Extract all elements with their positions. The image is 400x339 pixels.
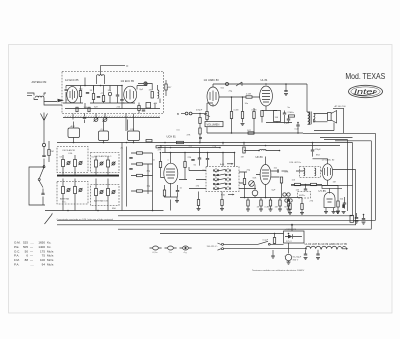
svg-text:VOLUMEN: VOLUMEN	[207, 122, 220, 126]
switch wafer bars	[216, 168, 228, 190]
trimmer CT2 below box	[94, 118, 98, 122]
svg-text:47K: 47K	[158, 149, 162, 151]
tube V3 UCH81	[164, 163, 178, 184]
resistor R37	[301, 204, 303, 210]
ground g18 cluster	[342, 212, 346, 214]
output transformer T2	[308, 112, 310, 124]
ground g7	[278, 209, 282, 211]
resistor R4	[102, 96, 104, 102]
resistor R31	[261, 111, 263, 117]
svg-text:UF 89: UF 89	[256, 155, 264, 159]
svg-text:Tensiones medidas con voltímet: Tensiones medidas con voltímetro electró…	[252, 269, 305, 272]
capacitor C8	[129, 158, 132, 159]
svg-text:0,3M: 0,3M	[265, 206, 270, 208]
svg-text:Mc/s: Mc/s	[47, 258, 54, 262]
svg-text:F.M.: F.M.	[14, 258, 20, 262]
svg-text:1M: 1M	[275, 206, 278, 208]
svg-text:Mc/s: Mc/s	[47, 254, 54, 258]
tube V8 UY85	[324, 192, 335, 207]
resistor R12	[159, 162, 161, 168]
wires transformer to speaker	[307, 112, 328, 124]
ground g13b	[332, 212, 336, 214]
capacitor C4	[97, 97, 100, 98]
svg-text:50: 50	[25, 249, 29, 253]
node c	[121, 85, 123, 87]
svg-text:1M: 1M	[241, 156, 244, 158]
wire anode V5 to UL84 grid	[219, 96, 260, 98]
trimmer CT7	[112, 162, 115, 165]
FM box internal wires	[63, 78, 160, 109]
wires UCH81 bottom	[164, 183, 177, 211]
coil L5	[74, 160, 77, 167]
svg-text:0,1M: 0,1M	[246, 94, 251, 96]
ground g9	[284, 94, 288, 96]
arrow conmutador	[45, 215, 52, 224]
resistor R10	[137, 190, 143, 192]
wires gang right	[131, 153, 153, 211]
wire det plate right	[333, 170, 356, 225]
resistor R36	[289, 204, 291, 210]
bus heater line	[160, 145, 340, 147]
svg-text:P.A.: P.A.	[14, 263, 19, 267]
capacitor C12	[176, 191, 179, 192]
trimmer CT11	[112, 191, 115, 194]
svg-text:470pF: 470pF	[196, 110, 203, 112]
svg-text:2M: 2M	[51, 151, 54, 153]
resistor R42	[76, 107, 78, 112]
resistor R16	[197, 200, 199, 206]
resistor R44 heater wire	[146, 140, 152, 142]
ground g11	[288, 213, 292, 215]
transformer T1 FM det	[146, 103, 151, 109]
svg-text:UL 84: UL 84	[261, 78, 268, 82]
value labels	[60, 87, 344, 241]
heater chain	[306, 246, 321, 249]
electrolytic C15	[252, 190, 258, 196]
trimmer CT8	[67, 189, 70, 192]
svg-text:+ B250 C75: + B250 C75	[285, 229, 297, 231]
resistor R14	[163, 190, 165, 196]
coil L2 with F tap	[97, 76, 105, 84]
coil L10	[95, 189, 98, 196]
capacitor C13	[206, 159, 209, 160]
svg-text:O.M.: O.M.	[68, 153, 73, 155]
ground g15	[287, 262, 291, 264]
capacitor C3	[86, 93, 89, 94]
resistor R19	[280, 177, 282, 183]
svg-text:110-125 V ~: 110-125 V ~	[207, 246, 219, 248]
svg-text:O.C.: O.C.	[14, 249, 20, 253]
terminal box right	[350, 215, 354, 222]
ground g14	[336, 211, 340, 213]
svg-text:0,1M: 0,1M	[234, 109, 239, 111]
svg-text:0,1µF: 0,1µF	[263, 239, 269, 241]
svg-text:Mc/s: Mc/s	[47, 249, 54, 253]
coil T6 AM IF	[285, 199, 288, 202]
coil L11	[107, 189, 110, 196]
svg-text:.....: .....	[30, 263, 34, 267]
svg-text:—: —	[30, 249, 33, 253]
resistor R29	[199, 118, 201, 124]
resistor R26	[230, 112, 232, 119]
resistor R34	[295, 183, 301, 185]
trimmer CT4	[67, 162, 70, 165]
band switch arm S1	[39, 167, 44, 188]
trimmer CT9	[79, 189, 82, 192]
FM tuner dashed enclosure	[62, 72, 164, 114]
wires IF bottom bus	[240, 185, 302, 198]
dashed box ANTENA O.C.	[57, 182, 88, 205]
resistor R39 NTC	[273, 238, 275, 244]
wire mains top	[224, 243, 259, 245]
capacitor C14	[278, 169, 279, 172]
dashed box ANTENA O.M.	[91, 185, 120, 206]
svg-text:P.E.: P.E.	[14, 245, 19, 249]
capacitor C31	[116, 95, 119, 96]
resistor R43	[88, 107, 90, 112]
coupling capacitor C5	[144, 82, 147, 85]
wire left frame	[29, 167, 45, 205]
wires UCH81 top	[158, 147, 234, 164]
bus bottom 4	[118, 141, 371, 229]
dashed IF box T4 467Kc	[298, 192, 311, 199]
svg-text:A.M.: A.M.	[220, 163, 225, 166]
svg-text:B: B	[177, 112, 179, 116]
resistor R5	[151, 92, 153, 99]
capacitor C16 screen	[226, 83, 229, 86]
node b	[100, 85, 102, 87]
resistor R1 left	[48, 141, 50, 162]
capacitor C6	[142, 110, 145, 111]
resistor R41	[289, 115, 295, 117]
trimmer CT3 below box	[103, 118, 107, 122]
mains input ticks	[218, 243, 222, 250]
dashed IF box T3	[300, 167, 321, 178]
svg-text:47K: 47K	[187, 134, 191, 136]
ground g13	[324, 212, 328, 214]
svg-text:50+50µF: 50+50µF	[293, 256, 302, 258]
bus detector out	[291, 184, 353, 186]
coil can F.M	[128, 131, 140, 141]
wires UF89 sides	[256, 171, 280, 177]
node B+ feed	[291, 224, 293, 226]
capacitor C11	[191, 160, 194, 161]
wires matrix top	[223, 143, 235, 167]
wire FM box verticals	[66, 86, 110, 104]
wires detector	[313, 159, 339, 196]
wire B+ top rail	[213, 84, 307, 112]
svg-text:OSCILADOR O.C.: OSCILADOR O.C.	[94, 155, 112, 158]
coil L4	[62, 160, 65, 167]
resistor R24	[287, 200, 289, 206]
resistor R18	[243, 147, 245, 153]
coil L6	[95, 160, 98, 167]
junction dots buses	[73, 122, 314, 250]
resistor R21	[260, 200, 262, 206]
resistor R27	[241, 112, 243, 119]
resistor R30	[199, 128, 201, 134]
svg-text:1400: 1400	[38, 245, 45, 249]
junction box small	[156, 146, 161, 148]
svg-text:Kc.: Kc.	[47, 245, 52, 249]
svg-text:5µF: 5µF	[272, 189, 276, 191]
bus bottom 2	[57, 133, 376, 220]
wires UF89 top	[244, 143, 280, 165]
ground g12	[300, 213, 304, 215]
ground g5	[259, 209, 263, 211]
coil L8	[62, 187, 65, 194]
wire grid stoppers	[137, 83, 160, 109]
rail y133	[207, 127, 375, 133]
svg-text:UCH 81: UCH 81	[167, 134, 177, 138]
ground hatch bus under FM box	[63, 117, 160, 119]
feed top right pair	[320, 138, 353, 140]
svg-text:1/2 ECC 85: 1/2 ECC 85	[65, 78, 79, 82]
ground g2	[197, 209, 201, 211]
antenna AM	[41, 113, 48, 144]
coil L7	[107, 160, 110, 167]
svg-text:O.M.: O.M.	[14, 241, 21, 245]
svg-text:505: 505	[23, 245, 28, 249]
diode D1	[288, 235, 293, 239]
rectifier box B250	[284, 231, 305, 243]
tube V1 1/2 ECC85	[67, 87, 78, 103]
wire FM antenna feed	[27, 93, 57, 102]
svg-text:47K: 47K	[285, 171, 289, 173]
resistor R7	[137, 152, 143, 154]
ground g1	[175, 201, 179, 203]
resistor R20	[247, 200, 249, 206]
svg-text:ANTENA FM: ANTENA FM	[32, 80, 47, 84]
svg-text:A.M: A.M	[71, 125, 75, 128]
pilot lamp LP1	[150, 247, 162, 249]
antenna feed arrow	[58, 99, 65, 103]
resistor R23	[279, 200, 281, 206]
svg-text:275 V: 275 V	[286, 241, 292, 243]
dashed box OSCILADOR O.C.	[91, 153, 120, 173]
switch tone S3	[236, 82, 242, 86]
svg-text:—: —	[30, 245, 33, 249]
coil L14	[315, 168, 316, 176]
box R32 cathode	[274, 111, 281, 122]
resistor R3	[92, 94, 94, 100]
coil L12	[260, 149, 267, 150]
capacitor C34 blob	[342, 205, 344, 208]
coil T5 AM IF	[283, 193, 286, 196]
ground g3	[220, 209, 224, 211]
tube V2 1/2 ECC85	[124, 86, 137, 103]
wire mains bottom	[224, 248, 307, 249]
resistor R15	[243, 179, 245, 185]
wires matrix left	[189, 167, 206, 189]
capacitor C7 below box	[83, 118, 86, 119]
svg-text:.....: .....	[30, 241, 34, 245]
balun coil L1	[36, 96, 44, 97]
capacitor C30	[363, 214, 365, 218]
capacitor C35	[199, 138, 202, 139]
resistor R25	[246, 96, 252, 98]
electrolytic C21	[288, 116, 290, 119]
switch wafer bar	[57, 175, 119, 177]
svg-text:F.M. 467 Kc: F.M. 467 Kc	[290, 162, 302, 164]
potentiometer P1	[249, 181, 255, 187]
resistor R17	[221, 200, 223, 206]
capacitor C22	[297, 123, 299, 125]
mains terminals	[222, 243, 224, 245]
trimmer CT6	[100, 162, 103, 165]
svg-text:50K: 50K	[253, 177, 257, 179]
rail right short	[347, 140, 349, 212]
wire left column	[43, 147, 45, 166]
ground g16	[272, 250, 274, 256]
capacitor C18	[185, 112, 188, 115]
resistor R28	[253, 112, 255, 119]
capacitor C25	[343, 203, 346, 204]
svg-text:1/2 ECC 85: 1/2 ECC 85	[121, 79, 135, 83]
bus bottom 3	[57, 224, 356, 226]
svg-text:467Kc: 467Kc	[299, 195, 306, 197]
bus bottom 1	[118, 143, 353, 216]
ground g10	[241, 124, 245, 126]
resistor R35	[311, 183, 317, 185]
resistor R22	[269, 200, 271, 206]
wire B+ from bus	[284, 234, 289, 254]
resistor R6 edge	[165, 84, 167, 90]
svg-text:Mc/s: Mc/s	[47, 263, 54, 267]
trimmer CT5	[79, 162, 82, 165]
resistor R38	[337, 201, 339, 207]
wire anode UL84 up	[265, 85, 267, 88]
capacitor C33	[65, 89, 68, 90]
svg-text:1650: 1650	[38, 241, 45, 245]
resistor R8	[137, 163, 143, 165]
wire speaker frame	[314, 109, 344, 134]
svg-text:OSCILADOR: OSCILADOR	[62, 149, 75, 152]
svg-text:2 MKa: 2 MKa	[288, 112, 295, 114]
capacitor C17 to gnd	[285, 84, 287, 90]
wires UY85	[322, 185, 342, 211]
svg-text:0,5M: 0,5M	[252, 109, 257, 111]
coil L9	[74, 187, 77, 194]
resistor R11 inline	[177, 141, 184, 143]
coil can A.M	[68, 128, 80, 138]
coil can O.L	[99, 131, 109, 141]
logo Inter oval	[349, 85, 383, 97]
resistor R33	[248, 132, 254, 134]
capacitor C19	[189, 112, 192, 115]
svg-text:AT 500 700: AT 500 700	[335, 105, 347, 108]
resistor R40	[138, 106, 140, 111]
node a	[84, 85, 86, 87]
ground g6	[269, 209, 273, 211]
switch contacts S2	[213, 169, 231, 189]
capacitor C23 top	[312, 143, 314, 150]
wire FM box to IF boxes	[73, 114, 134, 132]
resistor R13	[184, 162, 186, 168]
coil L13	[304, 168, 305, 176]
ground g8	[287, 209, 291, 211]
node switch top	[43, 165, 45, 167]
coupling capactior C1	[42, 143, 45, 146]
wires matrix right	[239, 172, 256, 189]
wire to ground frame	[42, 189, 44, 206]
svg-text:Kc.: Kc.	[47, 241, 52, 245]
switch S4 mains	[258, 241, 268, 244]
capacitor C2	[42, 155, 45, 156]
capacitor C27	[305, 250, 307, 254]
svg-text:88: 88	[25, 258, 29, 262]
svg-text:350 V: 350 V	[293, 259, 299, 261]
capacitor C20	[283, 113, 286, 114]
pilot lamp LP3	[180, 247, 192, 249]
pilot lamp LP2	[165, 247, 177, 249]
wire gang column	[122, 143, 127, 211]
svg-text:470pF: 470pF	[315, 149, 322, 151]
coil L3	[157, 85, 159, 90]
wire into FM box lower	[44, 102, 62, 106]
trimmer CT10	[100, 191, 103, 194]
tube V5 1/2 UABC80	[207, 87, 219, 106]
wire V5 cathode	[207, 103, 213, 106]
svg-text:P.A.: P.A.	[14, 254, 19, 258]
wire AT arrow	[333, 108, 344, 110]
svg-text:100: 100	[40, 258, 45, 262]
svg-text:Mod. TEXAS: Mod. TEXAS	[345, 71, 385, 81]
svg-text:—: —	[30, 254, 33, 258]
dashed box OSCILADOR O.M.	[57, 147, 88, 173]
trimmer CT1	[108, 92, 111, 95]
tube V4 UF89	[260, 165, 271, 185]
dashed box conmutador	[206, 167, 239, 192]
resistor R9	[137, 174, 143, 176]
svg-text:175: 175	[40, 249, 45, 253]
bus AVC line	[57, 142, 353, 144]
svg-text:—: —	[30, 258, 33, 262]
table frequency ranges	[14, 241, 54, 267]
speaker LS1	[328, 113, 332, 121]
capacitor C28	[317, 250, 319, 254]
capacitor C24	[304, 189, 307, 190]
tube V7 1/2 UABC80	[322, 164, 332, 180]
resistor R2	[79, 91, 81, 97]
page scan border	[9, 45, 393, 314]
capacitor C10	[198, 158, 201, 159]
capacitor C32	[120, 100, 123, 101]
capacitor C29	[356, 213, 358, 217]
svg-text:525: 525	[23, 241, 28, 245]
svg-text:1M: 1M	[333, 181, 336, 183]
svg-text:F: F	[127, 64, 129, 68]
svg-text:0,3 a: 0,3 a	[153, 252, 159, 254]
svg-text:ANTENA: ANTENA	[60, 198, 69, 201]
volume potentiometer P2	[206, 112, 208, 120]
UL84 cathode network	[262, 106, 277, 111]
svg-text:UY 85: UY 85	[319, 189, 327, 193]
tube V6 UL84	[260, 86, 273, 106]
svg-text:75: 75	[42, 254, 46, 258]
svg-text:UL 84 UCH 81 UF 89 UABC 80: UL 84 UCH 81 UF 89 UABC 80 UY 85	[305, 243, 348, 246]
capacitor C9	[129, 169, 132, 170]
svg-text:1/2 UABC 80: 1/2 UABC 80	[204, 78, 220, 82]
bus bottom 5	[160, 233, 284, 235]
box VOLUMEN	[205, 122, 223, 127]
svg-text:94: 94	[42, 263, 46, 267]
ground g4	[246, 209, 250, 211]
bus chassis low	[45, 210, 164, 212]
ground g17 cluster	[336, 212, 340, 214]
electrolytic C26 50+50	[285, 254, 291, 260]
wire B+ to rectifier	[291, 225, 293, 231]
